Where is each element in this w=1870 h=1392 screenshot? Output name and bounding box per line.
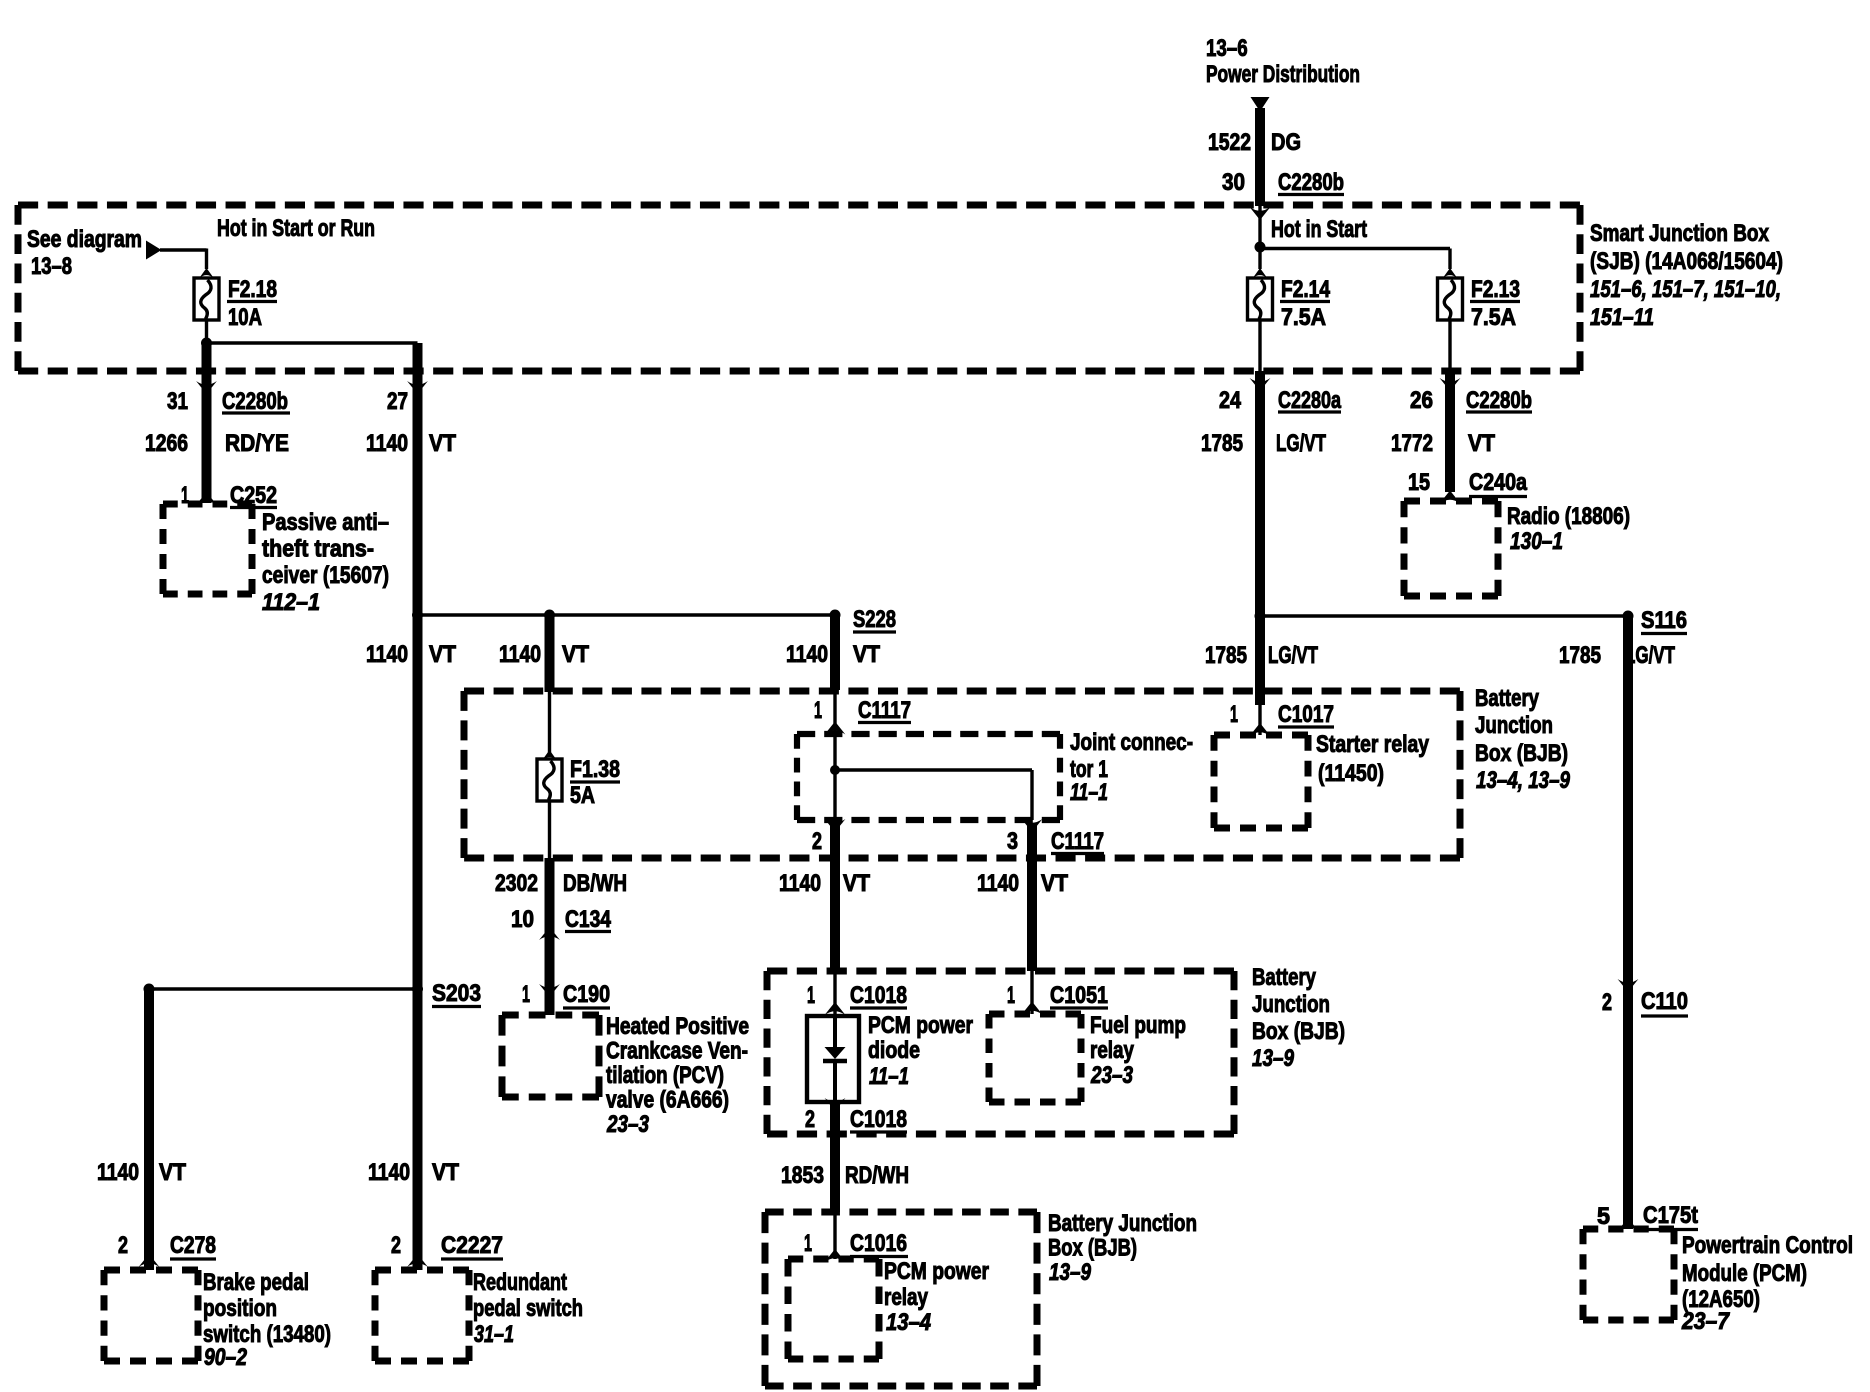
svg-text:13–9: 13–9	[1252, 1045, 1295, 1072]
svg-text:23–3: 23–3	[606, 1111, 649, 1138]
svg-text:C2280b: C2280b	[1466, 387, 1532, 414]
svg-text:F2.14: F2.14	[1281, 276, 1331, 303]
Fuel pump relay label	[1090, 1012, 1186, 1089]
svg-text:PCM power: PCM power	[884, 1258, 989, 1285]
wire below F1.38	[548, 801, 551, 858]
svg-text:30: 30	[1222, 169, 1245, 196]
PCM label	[1681, 1232, 1853, 1335]
Battery Junction Box (BJB) 13-9 dashed box (diode)	[767, 971, 1234, 1134]
svg-text:1140: 1140	[366, 430, 408, 457]
wire to pin 31	[202, 343, 212, 371]
svg-text:7.5A: 7.5A	[1281, 304, 1326, 331]
svg-text:1785: 1785	[1201, 430, 1243, 457]
connector C134 pin 10	[511, 906, 612, 940]
svg-text:C134: C134	[565, 906, 612, 933]
svg-text:theft trans-: theft trans-	[262, 536, 374, 563]
svg-text:Battery: Battery	[1475, 685, 1540, 712]
wire below F2.14	[1258, 320, 1261, 371]
connector C2280b pin 30	[1222, 169, 1344, 247]
svg-text:13–6: 13–6	[1206, 35, 1248, 62]
wire pin3 to BJB bottom	[1027, 824, 1037, 858]
wire 1140 VT x418 below S228	[366, 615, 456, 989]
connector C278 pin 2	[118, 1232, 216, 1267]
wire 1522 DG label	[1208, 129, 1301, 156]
PCV valve label	[606, 1013, 749, 1138]
Powertrain Control Module box	[1583, 1229, 1674, 1320]
wire 1266 RD/YE	[145, 371, 289, 503]
svg-text:F2.13: F2.13	[1471, 276, 1520, 303]
Joint connector 1 dashed box	[797, 734, 1060, 820]
svg-text:2: 2	[805, 1106, 815, 1133]
svg-text:Joint connec-: Joint connec-	[1070, 729, 1193, 756]
svg-text:S116: S116	[1641, 607, 1687, 634]
connector C110 pin 2	[1602, 979, 1688, 1016]
wire 1140 VT to C278	[97, 989, 186, 1270]
connector C2280a pin 24	[1219, 378, 1341, 414]
svg-text:C2280b: C2280b	[1278, 169, 1344, 196]
svg-text:VT: VT	[1041, 870, 1068, 897]
Radio box	[1404, 501, 1498, 596]
wire C110 to C175t	[1623, 992, 1633, 1229]
svg-text:23–3: 23–3	[1090, 1062, 1133, 1089]
wire 1140 VT to C2227	[368, 989, 459, 1270]
svg-text:Junction: Junction	[1252, 991, 1330, 1018]
BJB label right	[1475, 685, 1571, 794]
svg-text:1785: 1785	[1559, 642, 1601, 669]
connector C240a pin 15	[1408, 469, 1528, 504]
svg-text:VT: VT	[562, 641, 589, 668]
Fuel pump relay box	[989, 1014, 1081, 1102]
wire pin2 to BJB bottom	[830, 824, 840, 858]
svg-text:VT: VT	[1468, 430, 1495, 457]
svg-text:tilation (PCV): tilation (PCV)	[606, 1062, 724, 1089]
svg-text:Hot in Start or Run: Hot in Start or Run	[217, 215, 375, 242]
svg-text:112–1: 112–1	[262, 589, 320, 616]
svg-text:S228: S228	[853, 606, 896, 633]
Heated PCV valve box	[502, 1015, 599, 1097]
svg-text:2: 2	[1602, 989, 1612, 1016]
svg-text:VT: VT	[843, 870, 870, 897]
svg-text:C2227: C2227	[441, 1232, 503, 1259]
node inside joint connector	[830, 765, 840, 775]
splice S228 node line	[412, 606, 896, 633]
svg-text:1140: 1140	[368, 1159, 410, 1186]
Passive anti-theft transceiver box	[163, 504, 252, 594]
svg-text:PCM power: PCM power	[868, 1012, 973, 1039]
svg-text:VT: VT	[159, 1159, 186, 1186]
svg-text:1: 1	[522, 981, 530, 1008]
svg-text:C1017: C1017	[1278, 701, 1334, 728]
Brake pedal position switch label	[203, 1269, 331, 1371]
svg-text:Junction: Junction	[1475, 712, 1553, 739]
svg-text:Battery Junction: Battery Junction	[1048, 1210, 1197, 1237]
svg-text:Smart Junction Box: Smart Junction Box	[1590, 220, 1770, 247]
Starter relay label	[1316, 731, 1430, 787]
svg-text:1: 1	[807, 982, 815, 1009]
svg-text:VT: VT	[429, 430, 456, 457]
Smart Junction Box (SJB) dashed box	[18, 205, 1580, 371]
svg-text:position: position	[203, 1295, 277, 1322]
svg-text:13–9: 13–9	[1049, 1259, 1092, 1286]
svg-text:5A: 5A	[570, 782, 595, 809]
wire 1853 RD/WH	[781, 1102, 909, 1212]
connector C1117 pin 3	[1007, 819, 1104, 855]
Battery Junction Box (BJB) 13-9 dashed box (PCM relay)	[765, 1212, 1037, 1386]
svg-text:(SJB) (14A068/15604): (SJB) (14A068/15604)	[1590, 248, 1783, 275]
svg-text:Heated Positive: Heated Positive	[606, 1013, 749, 1040]
PCM power diode D1	[807, 1016, 859, 1102]
BJB PCM relay label	[1048, 1210, 1197, 1286]
Starter relay box	[1214, 735, 1308, 828]
svg-text:relay: relay	[884, 1284, 929, 1311]
svg-text:C240a: C240a	[1469, 469, 1528, 496]
wire 1140 VT below pin 3	[977, 858, 1068, 971]
svg-text:90–2: 90–2	[204, 1344, 248, 1371]
svg-text:1772: 1772	[1391, 430, 1433, 457]
wire branch to pin 27	[207, 341, 418, 344]
connector C1017 pin 1	[1230, 701, 1334, 736]
svg-text:Brake pedal: Brake pedal	[203, 1269, 309, 1296]
SJB label	[1590, 220, 1783, 331]
svg-text:Module (PCM): Module (PCM)	[1682, 1260, 1807, 1287]
svg-text:See diagram: See diagram	[27, 226, 142, 253]
connector C2280b pin 26	[1410, 378, 1532, 414]
svg-text:Power Distribution: Power Distribution	[1206, 61, 1360, 88]
wire 1140 VT below pin 2	[779, 858, 870, 971]
svg-text:1140: 1140	[499, 641, 541, 668]
connector C2280b pin 27	[387, 381, 428, 415]
wire to F2.14	[1258, 247, 1261, 269]
svg-text:1: 1	[814, 697, 822, 724]
fuse F2.13 7.5A	[1438, 268, 1521, 331]
diode label	[868, 1012, 973, 1090]
svg-text:VT: VT	[853, 641, 880, 668]
svg-text:relay: relay	[1090, 1037, 1135, 1064]
svg-text:C1018: C1018	[850, 1106, 907, 1133]
wire 1140 VT to C1117 pin 1	[786, 615, 880, 690]
svg-text:C1117: C1117	[858, 697, 911, 724]
svg-text:DG: DG	[1271, 129, 1301, 156]
connector C2227 pin 2	[391, 1232, 503, 1267]
svg-text:Starter relay: Starter relay	[1316, 731, 1430, 758]
svg-text:10: 10	[511, 906, 534, 933]
svg-text:DB/WH: DB/WH	[563, 870, 627, 897]
wire inside joint connector	[833, 734, 836, 820]
wire 1785 LG/VT S116 down	[1559, 616, 1675, 992]
svg-text:151–6, 151–7, 151–10,: 151–6, 151–7, 151–10,	[1590, 276, 1781, 303]
svg-text:13–4, 13–9: 13–4, 13–9	[1476, 767, 1571, 794]
BJB diode label	[1252, 964, 1345, 1072]
connector C1117 pin 2	[812, 819, 845, 855]
svg-text:1140: 1140	[97, 1159, 139, 1186]
svg-text:Redundant: Redundant	[473, 1269, 567, 1296]
splice S203 node line	[144, 980, 482, 1007]
svg-text:Box (BJB): Box (BJB)	[1048, 1235, 1137, 1262]
svg-text:11–1: 11–1	[1070, 779, 1108, 806]
svg-text:1266: 1266	[145, 430, 188, 457]
svg-text:LG/VT: LG/VT	[1625, 642, 1675, 669]
svg-text:13–4: 13–4	[886, 1309, 931, 1336]
Battery Junction Box (BJB) 13-4 13-9 dashed box	[464, 691, 1460, 858]
power feed from 13-6 Power Distribution	[1206, 35, 1360, 206]
svg-text:F1.38: F1.38	[570, 756, 620, 783]
svg-text:130–1: 130–1	[1510, 528, 1563, 555]
wire below F2.13	[1448, 320, 1451, 371]
connector C1018 pin 2	[805, 1098, 907, 1133]
node Hot in Start junction	[1255, 242, 1266, 253]
svg-text:C2280b: C2280b	[222, 388, 288, 415]
svg-text:C2280a: C2280a	[1278, 387, 1341, 414]
svg-text:27: 27	[387, 388, 408, 415]
svg-text:23–7: 23–7	[1681, 1308, 1730, 1335]
Passive anti-theft transceiver label	[262, 509, 389, 616]
PCM power relay box	[788, 1259, 879, 1359]
svg-text:5: 5	[1597, 1203, 1610, 1230]
svg-text:3: 3	[1007, 828, 1018, 855]
svg-text:Radio (18806): Radio (18806)	[1507, 503, 1630, 530]
connector C1051 pin 1	[1007, 971, 1108, 1015]
connector C1117 pin 1	[814, 690, 911, 735]
svg-text:1140: 1140	[977, 870, 1019, 897]
wire 1140 VT from pin 27	[366, 371, 456, 615]
svg-text:Passive anti–: Passive anti–	[262, 509, 389, 536]
wire 1772 VT from pin 26	[1391, 371, 1495, 492]
svg-text:11–1: 11–1	[869, 1063, 909, 1090]
svg-text:LG/VT: LG/VT	[1268, 642, 1318, 669]
svg-text:7.5A: 7.5A	[1471, 304, 1516, 331]
svg-text:S203: S203	[432, 980, 481, 1007]
svg-text:RD/WH: RD/WH	[845, 1162, 909, 1189]
svg-text:pedal switch: pedal switch	[473, 1295, 583, 1322]
svg-text:13–8: 13–8	[31, 253, 72, 280]
wire branch to pin 3	[835, 768, 1032, 771]
svg-text:C1018: C1018	[850, 982, 907, 1009]
svg-text:1140: 1140	[366, 641, 408, 668]
svg-text:RD/YE: RD/YE	[225, 430, 289, 457]
svg-text:1785: 1785	[1205, 642, 1247, 669]
svg-text:Battery: Battery	[1252, 964, 1317, 991]
svg-text:C278: C278	[170, 1232, 216, 1259]
wire 2302 DB/WH	[495, 858, 627, 941]
svg-text:2: 2	[812, 828, 822, 855]
svg-text:Powertrain Control: Powertrain Control	[1682, 1232, 1853, 1259]
connector C175t pin 5	[1597, 1202, 1698, 1231]
PCM power relay label	[884, 1258, 989, 1336]
connector C2280b pin 31	[167, 381, 290, 415]
svg-text:Box (BJB): Box (BJB)	[1252, 1018, 1345, 1045]
connector C1016 pin 1	[804, 1212, 908, 1262]
svg-text:15: 15	[1408, 469, 1430, 496]
svg-text:1140: 1140	[786, 641, 828, 668]
node junction at F2.18 input	[205, 249, 208, 270]
node A below F2.18	[201, 338, 212, 349]
connector C252 pin 1	[181, 482, 277, 509]
svg-text:151–11: 151–11	[1590, 304, 1654, 331]
fuse F2.14 7.5A	[1248, 268, 1331, 331]
svg-text:2: 2	[391, 1232, 401, 1259]
svg-text:10A: 10A	[228, 304, 262, 331]
see diagram 13-8 arrow	[27, 226, 207, 280]
Radio label	[1507, 503, 1630, 555]
wire below F2.18	[205, 320, 208, 343]
svg-text:31–1: 31–1	[474, 1321, 514, 1348]
fuse F1.38 5A	[537, 692, 620, 809]
svg-text:C1117: C1117	[1051, 828, 1104, 855]
wire C134 to C190	[545, 941, 555, 1015]
Joint connector label	[1070, 729, 1193, 806]
svg-text:1140: 1140	[779, 870, 821, 897]
connector C190 pin 1	[522, 981, 610, 1008]
splice S116 node line	[1255, 607, 1688, 634]
svg-text:VT: VT	[432, 1159, 459, 1186]
svg-text:Crankcase Ven-: Crankcase Ven-	[606, 1038, 748, 1065]
connector C1018 pin 1	[807, 971, 907, 1016]
svg-text:diode: diode	[868, 1037, 920, 1064]
svg-text:26: 26	[1410, 387, 1433, 414]
svg-text:C1016: C1016	[850, 1230, 907, 1257]
svg-text:LG/VT: LG/VT	[1276, 430, 1326, 457]
svg-text:1: 1	[1007, 982, 1015, 1009]
svg-text:2302: 2302	[495, 870, 538, 897]
wire 1785 LG/VT from pin 24	[1201, 371, 1326, 616]
svg-text:C190: C190	[563, 981, 610, 1008]
svg-text:Box (BJB): Box (BJB)	[1475, 740, 1568, 767]
svg-text:C1051: C1051	[1050, 982, 1108, 1009]
wire 1140 VT to F1.38	[499, 615, 589, 692]
wire 1785 LG/VT to C1017	[1205, 616, 1318, 705]
svg-text:2: 2	[118, 1232, 128, 1259]
wire branch to F2.13	[1260, 247, 1450, 250]
svg-text:valve (6A666): valve (6A666)	[606, 1087, 729, 1114]
Redundant pedal switch box	[375, 1270, 469, 1361]
svg-text:C175t: C175t	[1643, 1202, 1698, 1229]
svg-text:24: 24	[1219, 387, 1242, 414]
Brake pedal position switch box	[104, 1270, 198, 1361]
fuse F2.18 10A	[194, 268, 277, 331]
svg-text:ceiver (15607): ceiver (15607)	[262, 562, 389, 589]
svg-text:Hot in Start: Hot in Start	[1271, 216, 1367, 243]
svg-text:1: 1	[804, 1230, 812, 1257]
svg-text:31: 31	[167, 388, 188, 415]
svg-text:1853: 1853	[781, 1162, 824, 1189]
svg-text:1: 1	[1230, 701, 1238, 728]
svg-text:C110: C110	[1641, 988, 1688, 1015]
svg-text:F2.18: F2.18	[228, 276, 277, 303]
svg-text:1522: 1522	[1208, 129, 1251, 156]
Redundant pedal switch label	[473, 1269, 583, 1348]
svg-text:VT: VT	[429, 641, 456, 668]
svg-text:Fuel pump: Fuel pump	[1090, 1012, 1186, 1039]
svg-text:(11450): (11450)	[1318, 760, 1384, 787]
